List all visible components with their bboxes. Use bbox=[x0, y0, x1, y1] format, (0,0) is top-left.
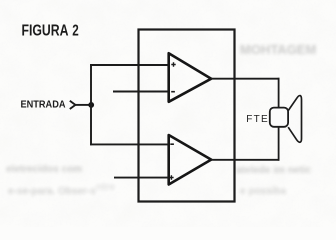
pin label + (U1 non-inverting input) bbox=[171, 62, 175, 66]
wire: bus to U1 + input bbox=[90, 64, 169, 66]
svg-text:FTE: FTE bbox=[246, 114, 269, 125]
svg-text:MOHTAGEM: MOHTAGEM bbox=[240, 42, 316, 57]
svg-text:e-se-para. Obser-s: e-se-para. Obser-s bbox=[8, 186, 96, 197]
wire: bus to U2 - input bbox=[90, 143, 169, 145]
amplifier block outline bbox=[139, 30, 235, 202]
svg-text:2: 2 bbox=[72, 22, 79, 39]
wire: U1 output drop to speaker bbox=[278, 78, 280, 108]
pin label + (U2 non-inverting input) bbox=[169, 175, 173, 179]
pin label - (U2 inverting input) bbox=[170, 143, 174, 145]
op-amp U1 bbox=[169, 53, 212, 102]
wire: arrowhead to input node bbox=[75, 104, 91, 106]
svg-text:eletrecidos com: eletrecidos com bbox=[6, 164, 82, 175]
wire: U2 + input stub bbox=[114, 177, 169, 179]
svg-text:FIGURA: FIGURA bbox=[22, 22, 69, 39]
input arrowhead bbox=[70, 101, 76, 109]
pin label - (U1 inverting input) bbox=[171, 91, 175, 93]
svg-text:e possiba: e possiba bbox=[240, 186, 287, 197]
wire: U2 output rise to speaker bbox=[278, 126, 280, 160]
wire: U1 - input stub bbox=[113, 91, 169, 93]
svg-text:atelede im netic: atelede im netic bbox=[236, 165, 311, 176]
node A: input junction dot bbox=[88, 102, 94, 108]
op-amp U2 bbox=[169, 135, 212, 185]
speaker LS1 driver box bbox=[270, 108, 288, 127]
wire: input bus vertical bbox=[90, 64, 92, 145]
svg-text:ENTRADA: ENTRADA bbox=[21, 98, 66, 110]
wire: U2 output horizontal bbox=[211, 159, 279, 161]
wire: U1 output horizontal bbox=[211, 78, 280, 80]
svg-text:ntre: ntre bbox=[96, 182, 115, 193]
speaker LS1 cone bbox=[288, 96, 301, 143]
